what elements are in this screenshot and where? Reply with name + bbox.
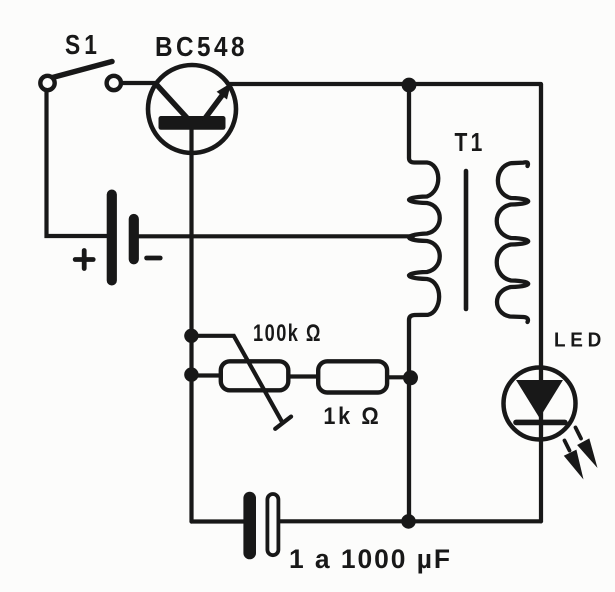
transformer T1 secondary winding (right): [497, 162, 529, 322]
junction dot at collector/top wire: [402, 78, 417, 93]
svg-text:S1: S1: [65, 29, 101, 60]
LED light arrow 2 head: [577, 438, 597, 468]
wire: right vertical from top-right corner down to LED: [539, 84, 543, 368]
potentiometer P1 wiper end tick: [275, 417, 291, 429]
wire: bottom wire left segment to capacitor: [192, 519, 244, 523]
LED cathode bar: [516, 420, 565, 426]
junction dot upper left (wiper tap): [184, 329, 198, 343]
svg-text:LED: LED: [554, 330, 606, 352]
capacitor C1 right plate (outlined): [267, 494, 278, 555]
wire: battery minus to transformer center tap: [139, 234, 413, 238]
transformer T1 primary winding (left): [409, 85, 440, 522]
LED circle: [504, 368, 576, 440]
transformer T1 core: [464, 171, 469, 309]
wire: transistor collector to top-right corner: [229, 82, 541, 86]
wire: between potentiometer and 1k resistor: [288, 374, 320, 378]
wire: switch right terminal to transistor: [121, 81, 155, 85]
potentiometer P1 100k body: [221, 361, 288, 390]
battery B1 negative plate: [129, 214, 139, 265]
wire: transistor base lead down to bottom wire: [189, 129, 193, 522]
switch S1 lever: [53, 62, 113, 78]
battery B1 positive plate: [107, 190, 117, 286]
junction dot right of 1k resistor: [403, 370, 418, 385]
svg-text:1k Ω: 1k Ω: [323, 403, 381, 430]
wire: bottom wire right segment from capacitor to bottom-right corner: [279, 519, 542, 523]
capacitor C1 left plate (filled): [243, 492, 256, 560]
LED light arrow 1 shaft: [565, 441, 570, 451]
wire: LED bottom to bottom-right corner: [539, 440, 543, 521]
LED triangle (anode): [516, 380, 563, 418]
resistor R1 1k body: [318, 361, 387, 392]
transistor Q1 collector arrowhead: [217, 83, 231, 100]
wire: 1k resistor to right junction: [386, 375, 411, 379]
battery B1 minus sign: [147, 256, 161, 261]
battery B1 plus sign: [75, 251, 93, 269]
potentiometer P1 wiper arm: [191, 336, 282, 422]
LED wire through: [539, 366, 543, 440]
junction dot lower left (resistor row): [184, 367, 198, 381]
transistor Q1 emitter lead: [156, 84, 188, 119]
wire: resistor row left: [191, 373, 222, 377]
svg-text:T1: T1: [455, 127, 486, 157]
LED light arrow 2 shaft: [576, 428, 582, 439]
transistor Q1 circle: [148, 65, 236, 153]
switch S1 left terminal: [40, 76, 54, 90]
junction dot bottom wire: [401, 514, 416, 529]
transistor Q1 collector lead: [205, 94, 224, 120]
svg-text:BC548: BC548: [155, 31, 248, 62]
switch S1 right terminal: [107, 76, 121, 90]
LED light arrow 1 head: [564, 450, 584, 480]
svg-text:1 a 1000 µF: 1 a 1000 µF: [289, 544, 452, 574]
transistor Q1 base bar: [159, 116, 226, 130]
wire: left branch from switch down to battery: [47, 90, 107, 236]
svg-text:100k Ω: 100k Ω: [253, 320, 322, 347]
